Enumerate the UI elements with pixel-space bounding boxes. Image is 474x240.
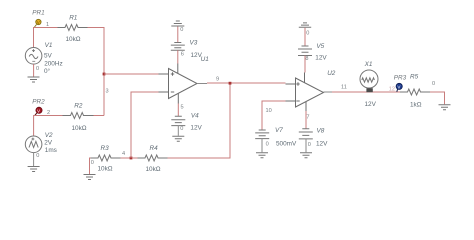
svg-text:10kΩ: 10kΩ — [146, 166, 161, 173]
voltage source V2 — [25, 136, 42, 153]
wire U2 - input to V7 — [262, 101, 286, 130]
svg-text:1kΩ: 1kΩ — [410, 101, 422, 108]
svg-text:12V: 12V — [316, 141, 328, 148]
wire V2 top to R2 — [34, 116, 63, 137]
wire node 3 to U1 + input — [104, 73, 159, 75]
svg-text:11: 11 — [341, 85, 347, 91]
svg-text:V4: V4 — [191, 113, 199, 120]
svg-text:0: 0 — [308, 142, 311, 148]
svg-text:12V: 12V — [191, 52, 203, 59]
svg-text:R4: R4 — [150, 145, 159, 152]
resistor R2 — [63, 113, 94, 119]
wire V2 bottom to ground — [33, 153, 35, 166]
svg-text:0: 0 — [36, 153, 39, 159]
ground (right) — [439, 105, 451, 110]
probe PR3 — [394, 75, 407, 92]
probe PR1 — [32, 9, 45, 27]
wire V3 to U1 power — [177, 50, 179, 63]
op-amp U2 — [286, 73, 324, 112]
svg-text:9: 9 — [216, 77, 219, 83]
svg-text:V8: V8 — [317, 127, 325, 134]
ground (R3 left) — [84, 175, 96, 180]
ground (V1) — [28, 77, 40, 82]
wire node4 to R4 — [132, 157, 138, 159]
svg-text:PR2: PR2 — [32, 98, 45, 105]
svg-text:V2: V2 — [45, 132, 53, 139]
svg-text:U1: U1 — [201, 56, 210, 63]
svg-text:R1: R1 — [69, 14, 78, 21]
svg-text:R3: R3 — [101, 145, 110, 152]
resistor R3 — [91, 155, 121, 161]
svg-text:V3: V3 — [190, 40, 198, 47]
svg-text:X1: X1 — [364, 61, 373, 68]
svg-text:12: 12 — [389, 87, 395, 93]
svg-text:1: 1 — [46, 22, 49, 28]
junction node 3 — [103, 73, 106, 76]
svg-text:200Hz: 200Hz — [44, 61, 62, 68]
svg-text:0: 0 — [91, 160, 94, 166]
svg-text:0: 0 — [180, 126, 183, 132]
resistor R4 — [138, 155, 168, 161]
ground (V8) — [300, 153, 312, 158]
probe PR2 — [32, 98, 45, 115]
svg-text:10kΩ: 10kΩ — [66, 36, 81, 43]
wire R5 to right ground — [430, 92, 445, 104]
svg-text:12V: 12V — [315, 55, 327, 62]
svg-text:V5: V5 — [316, 43, 324, 50]
power V8 — [299, 129, 313, 139]
resistor R5 — [400, 89, 430, 95]
ground (V7) — [256, 153, 268, 158]
svg-text:2V: 2V — [44, 139, 53, 146]
ground (V3 top, inverted) — [171, 21, 184, 26]
voltage source V1 — [25, 48, 42, 65]
svg-text:10kΩ: 10kΩ — [72, 125, 87, 132]
power V7 — [255, 130, 269, 139]
wire node 4 to U1 - input — [131, 92, 159, 158]
wire V5 to U2 power — [304, 56, 306, 73]
wire R3 left lead to ground — [90, 158, 91, 174]
svg-text:10: 10 — [266, 108, 272, 114]
resistor R1 — [58, 25, 88, 31]
ground (V5 top, inverted) — [299, 23, 311, 27]
svg-text:12V: 12V — [365, 101, 377, 108]
junction node 9 — [229, 82, 232, 85]
svg-text:R5: R5 — [410, 73, 419, 80]
power V3 — [171, 43, 185, 51]
svg-text:1ms: 1ms — [45, 147, 57, 154]
wire V5 top to ground — [304, 28, 306, 46]
svg-text:R2: R2 — [74, 103, 83, 110]
wire U2 to V8 — [305, 111, 307, 129]
svg-text:0: 0 — [306, 30, 309, 36]
svg-text:V1: V1 — [45, 42, 53, 49]
svg-text:5: 5 — [181, 104, 184, 110]
wire R3 to node 4 — [121, 157, 132, 159]
wire V1 top to R1 — [34, 28, 58, 48]
svg-text:12V: 12V — [190, 124, 202, 131]
wire U1 output to node 9 — [197, 83, 207, 85]
svg-text:10kΩ: 10kΩ — [98, 166, 113, 173]
svg-text:0: 0 — [266, 142, 269, 148]
junction node 4 — [130, 157, 133, 160]
svg-text:6: 6 — [181, 52, 184, 58]
svg-text:V7: V7 — [275, 127, 283, 134]
wire V7 to ground — [261, 139, 263, 153]
svg-text:PR1: PR1 — [32, 9, 45, 16]
wire V3 top to ground — [177, 27, 179, 43]
svg-text:0°: 0° — [44, 67, 51, 75]
svg-text:8: 8 — [305, 56, 308, 62]
svg-text:0: 0 — [36, 66, 39, 72]
wire V1 bottom to ground — [33, 64, 35, 76]
wire U2 output to lamp and R5 — [324, 91, 333, 93]
svg-text:3: 3 — [106, 88, 109, 94]
wire V8 to ground — [305, 139, 307, 152]
ground (V4) — [172, 136, 184, 141]
wire R2 to node3 column — [94, 115, 105, 117]
svg-text:5V: 5V — [44, 52, 53, 59]
ground (V2) — [28, 167, 40, 172]
wire U1 to V4 — [177, 104, 179, 117]
svg-text:0: 0 — [432, 81, 435, 87]
svg-text:0: 0 — [180, 27, 183, 33]
power V4 — [171, 116, 185, 125]
svg-text:U2: U2 — [327, 70, 336, 77]
wire V4 to ground — [177, 126, 179, 136]
svg-text:V: V — [37, 20, 40, 25]
wire R1 to node3 column down to R2 — [88, 28, 105, 116]
lamp X1 — [360, 70, 378, 88]
wire R4 to node 9 column — [168, 83, 231, 158]
svg-text:7: 7 — [306, 114, 309, 120]
svg-text:PR3: PR3 — [394, 75, 407, 82]
op-amp U1 — [159, 64, 198, 104]
svg-text:4: 4 — [122, 151, 125, 157]
power V5 — [298, 46, 312, 56]
svg-text:500mV: 500mV — [276, 141, 297, 148]
